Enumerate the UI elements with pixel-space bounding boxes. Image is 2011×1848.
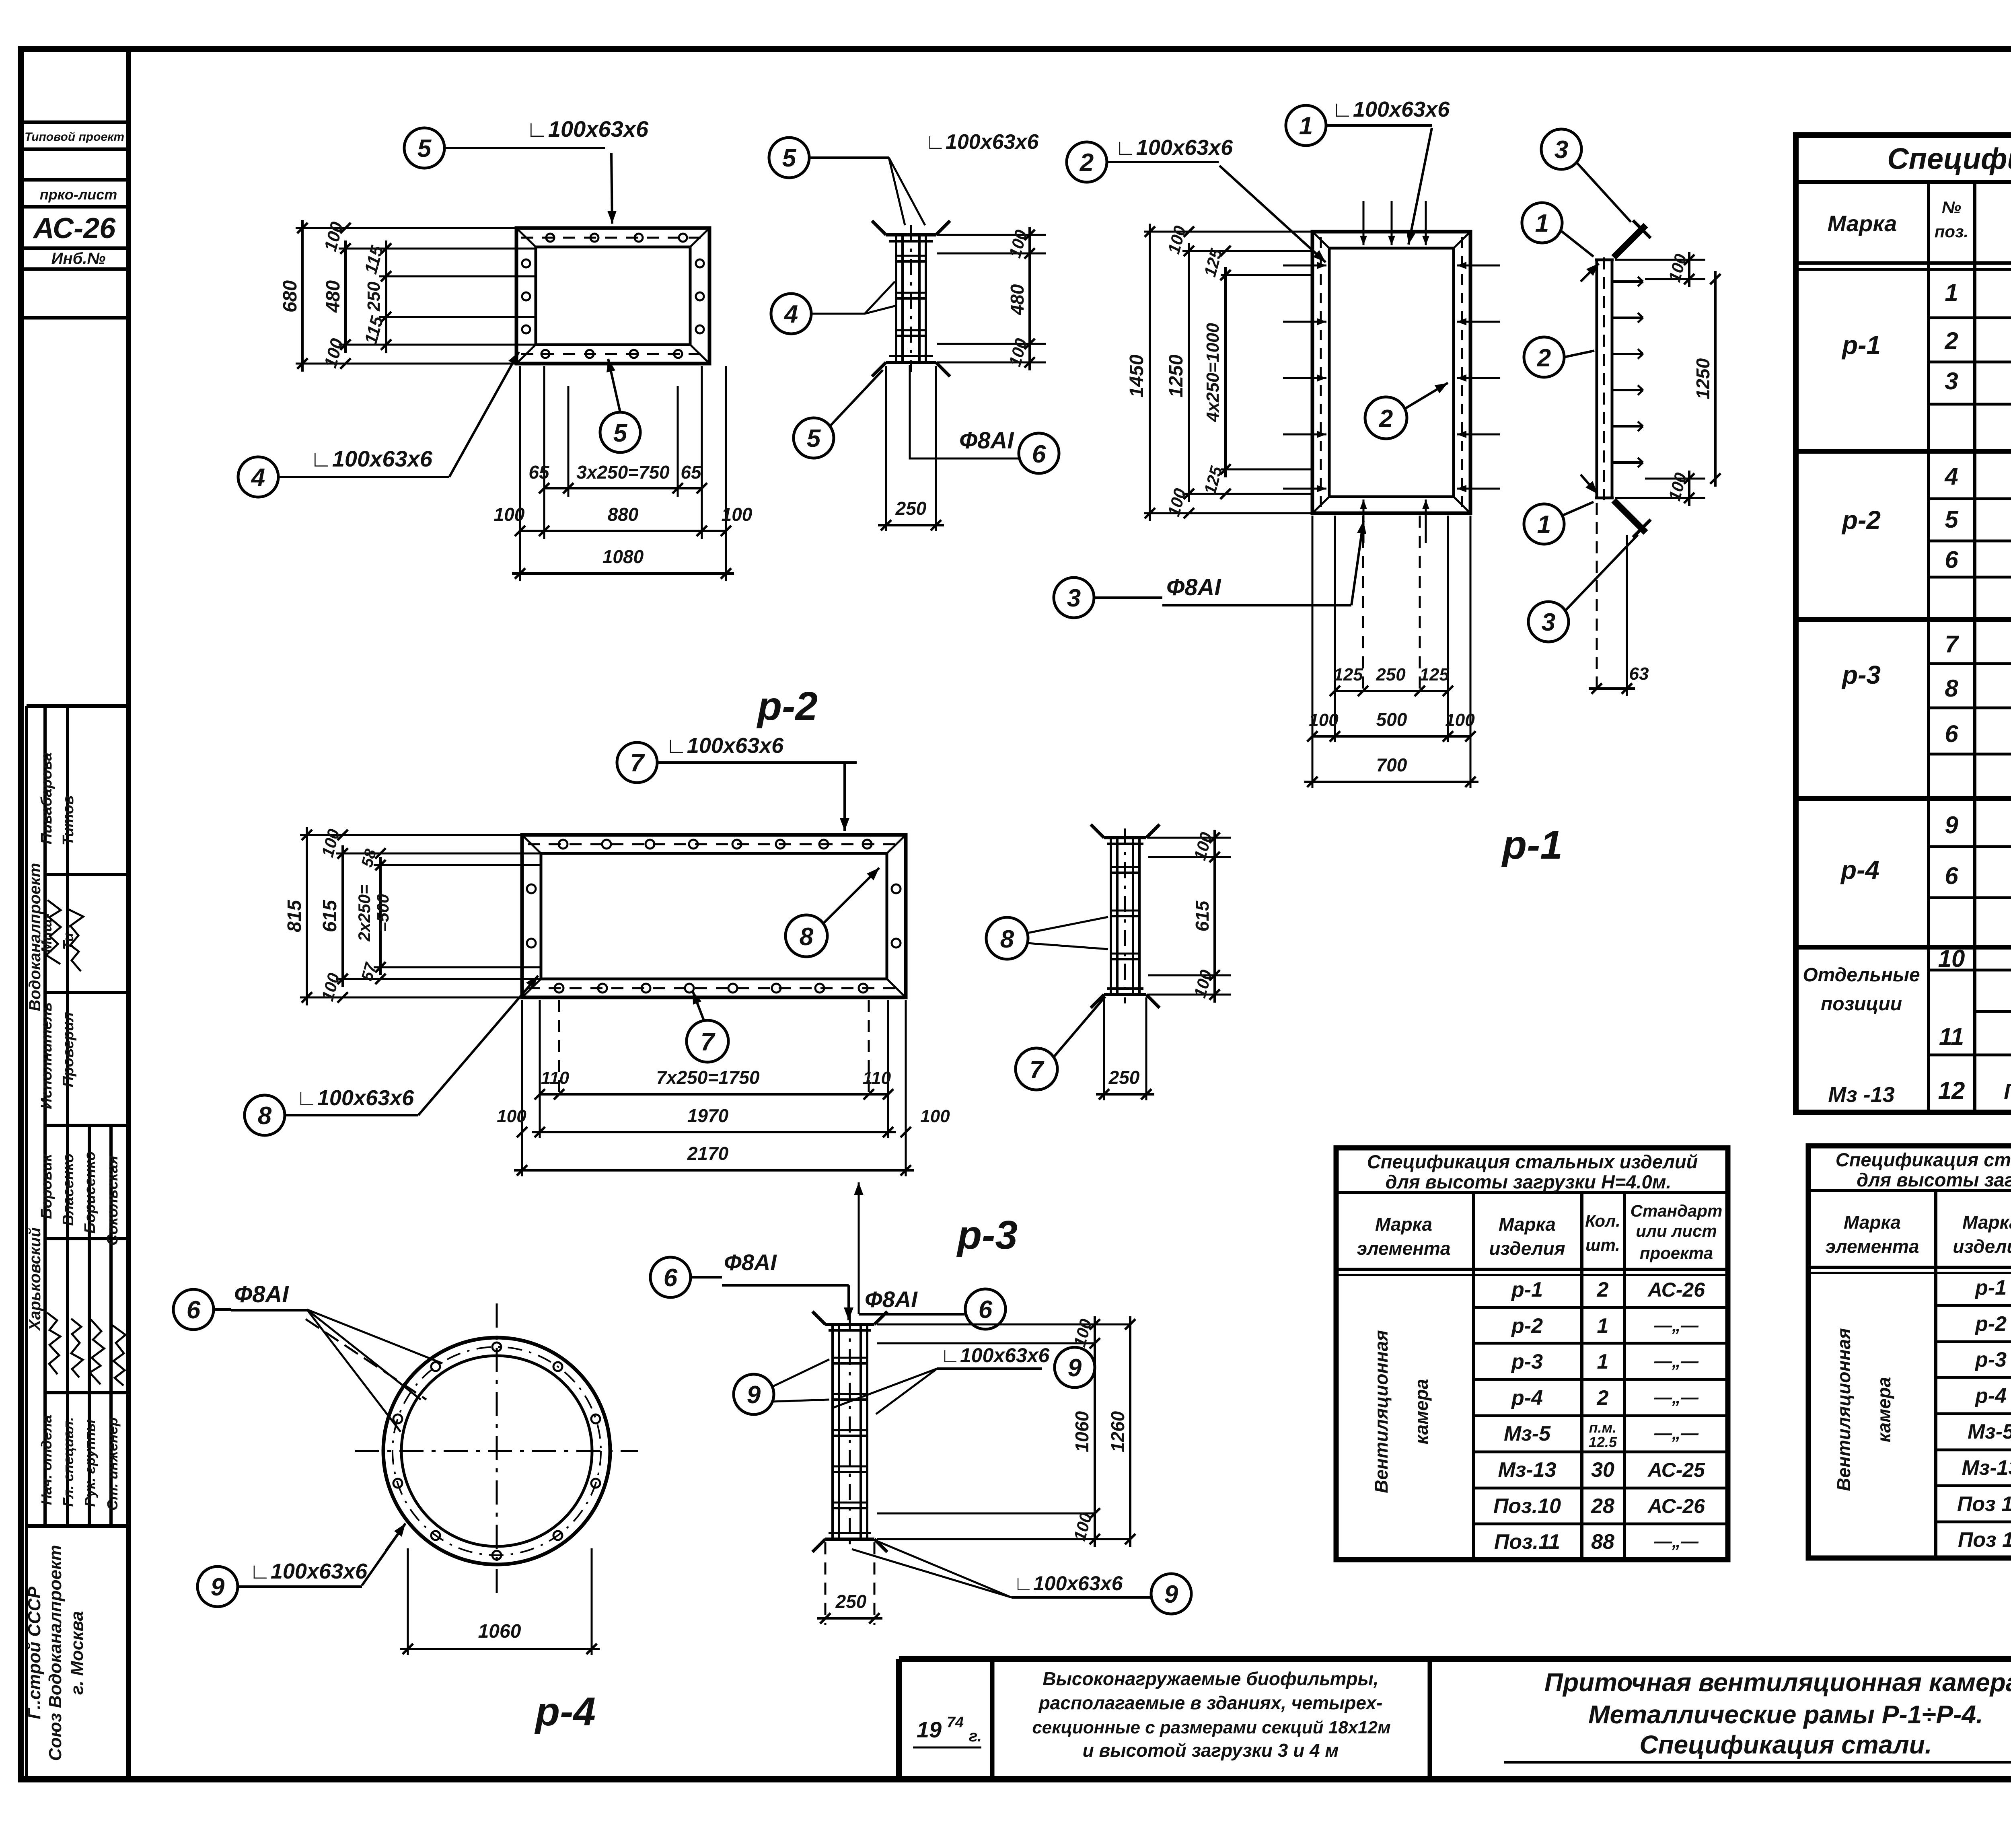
svg-text:7х250=1750: 7х250=1750: [656, 1067, 760, 1088]
svg-text:—„—: —„—: [1654, 1351, 1699, 1371]
svg-text:5: 5: [417, 135, 432, 162]
svg-text:110: 110: [541, 1068, 570, 1088]
svg-text:р-2: р-2: [1841, 506, 1881, 534]
svg-text:—„—: —„—: [1654, 1388, 1699, 1407]
svg-text:6: 6: [979, 1296, 993, 1324]
svg-text:=500: =500: [373, 894, 392, 932]
svg-text:∟100х63х6: ∟100х63х6: [925, 130, 1039, 154]
svg-text:8: 8: [1000, 925, 1014, 953]
svg-text:Ф8АІ: Ф8АІ: [234, 1281, 289, 1307]
svg-text:Поз 10: Поз 10: [1957, 1492, 2011, 1516]
svg-text:Мз -13: Мз -13: [1828, 1083, 1895, 1107]
svg-text:5: 5: [782, 144, 797, 172]
svg-text:Г..строй СССР: Г..строй СССР: [25, 1586, 44, 1719]
svg-text:р-3: р-3: [1974, 1348, 2007, 1371]
svg-text:1260: 1260: [1107, 1411, 1128, 1452]
svg-text:р-4: р-4: [1974, 1384, 2007, 1408]
svg-text:2х250=: 2х250=: [355, 884, 374, 941]
svg-text:100: 100: [920, 1106, 950, 1126]
svg-text:2: 2: [1080, 149, 1094, 177]
svg-text:Поз 11: Поз 11: [1958, 1528, 2011, 1552]
svg-text:1: 1: [1299, 112, 1313, 140]
svg-text:изделия: изделия: [1489, 1238, 1565, 1259]
svg-text:9: 9: [1164, 1581, 1178, 1608]
svg-text:8: 8: [1945, 675, 1958, 702]
svg-text:1060: 1060: [1071, 1411, 1092, 1452]
svg-text:5: 5: [1945, 506, 1959, 533]
svg-text:Рук. группы: Рук. группы: [82, 1419, 98, 1507]
svg-text:шт.: шт.: [1585, 1235, 1620, 1254]
svg-text:∟100х63х6: ∟100х63х6: [1332, 97, 1450, 121]
svg-text:65: 65: [681, 462, 702, 483]
svg-text:3: 3: [1945, 368, 1958, 395]
svg-text:1250: 1250: [1166, 354, 1187, 397]
svg-text:5: 5: [807, 425, 821, 452]
svg-text:7: 7: [1030, 1056, 1045, 1084]
svg-text:250: 250: [895, 498, 927, 519]
svg-text:Поз.10: Поз.10: [1493, 1494, 1561, 1518]
svg-text:Спецификация стали на одно: Спецификация стали на одно изделие.: [1887, 142, 2011, 175]
svg-text:6: 6: [1945, 546, 1958, 573]
svg-text:элемента: элемента: [1357, 1238, 1451, 1259]
svg-text:4: 4: [251, 464, 265, 491]
svg-text:3: 3: [1067, 584, 1081, 612]
svg-text:9: 9: [747, 1381, 761, 1409]
svg-text:Высоконагружаемые биофильтры,: Высоконагружаемые биофильтры,: [1043, 1668, 1378, 1689]
svg-text:г.: г.: [969, 1727, 982, 1745]
svg-text:10: 10: [1938, 945, 1965, 972]
svg-text:100: 100: [1309, 710, 1339, 730]
svg-text:р-1: р-1: [1511, 1278, 1543, 1301]
svg-text:30: 30: [1591, 1458, 1614, 1482]
svg-text:∟100х63х6: ∟100х63х6: [666, 734, 784, 758]
svg-text:74: 74: [947, 1714, 964, 1731]
svg-text:1970: 1970: [687, 1105, 729, 1126]
svg-text:1060: 1060: [478, 1621, 521, 1642]
svg-text:4: 4: [1944, 463, 1958, 490]
svg-text:6: 6: [1945, 862, 1958, 889]
svg-text:11: 11: [1939, 1023, 1964, 1050]
svg-text:Мз-13: Мз-13: [1962, 1456, 2011, 1480]
svg-text:р-1: р-1: [1501, 822, 1563, 867]
svg-text:Харьковский: Харьковский: [26, 1227, 44, 1331]
svg-text:р-4: р-4: [1511, 1386, 1543, 1410]
svg-text:7: 7: [1945, 631, 1959, 658]
svg-text:Приточная вентиляционная камер: Приточная вентиляционная камера.: [1544, 1668, 2011, 1697]
svg-text:6: 6: [1945, 720, 1958, 747]
svg-text:880: 880: [608, 504, 639, 525]
svg-text:Вентиляционная: Вентиляционная: [1371, 1330, 1392, 1493]
svg-text:или лист: или лист: [1636, 1221, 1717, 1240]
svg-text:500: 500: [1376, 709, 1407, 730]
svg-text:63: 63: [1629, 664, 1649, 684]
svg-text:р-2: р-2: [1511, 1314, 1543, 1338]
svg-text:п.м.: п.м.: [1589, 1419, 1617, 1436]
svg-text:Сокольская: Сокольская: [104, 1155, 121, 1246]
svg-text:р-4: р-4: [534, 1689, 596, 1734]
svg-text:28: 28: [1591, 1494, 1614, 1518]
svg-text:615: 615: [319, 900, 341, 932]
svg-text:Газовая трубка Д-1/2": Газовая трубка Д-1/2": [2004, 1079, 2011, 1104]
svg-text:Мз-5: Мз-5: [1504, 1422, 1551, 1445]
svg-text:9: 9: [1945, 812, 1958, 839]
svg-text:Ф8АІ: Ф8АІ: [959, 428, 1014, 454]
svg-text:1450: 1450: [1126, 354, 1147, 397]
svg-text:4х250=1000: 4х250=1000: [1203, 323, 1223, 422]
svg-text:12: 12: [1938, 1077, 1965, 1104]
svg-text:∟100х63х6: ∟100х63х6: [249, 1559, 368, 1583]
svg-text:Боровик: Боровик: [38, 1153, 55, 1219]
svg-text:Пивабарова: Пивабарова: [38, 752, 55, 845]
svg-text:8: 8: [258, 1102, 272, 1130]
svg-text:6: 6: [187, 1296, 201, 1324]
svg-text:Металлические рамы Р-1÷Р-4.: Металлические рамы Р-1÷Р-4.: [1588, 1700, 1983, 1729]
svg-text:р-2: р-2: [1974, 1312, 2007, 1336]
svg-text:250: 250: [1376, 665, 1406, 685]
svg-text:3: 3: [1555, 136, 1568, 164]
svg-text:2: 2: [1944, 327, 1958, 354]
svg-text:АС-26: АС-26: [1647, 1279, 1705, 1301]
svg-text:12.5: 12.5: [1589, 1434, 1617, 1450]
svg-text:8: 8: [800, 923, 814, 951]
svg-text:для высоты загрузки Н=30м.: для высоты загрузки Н=30м.: [1857, 1169, 2011, 1190]
svg-text:секционные с размерами секций: секционные с размерами секций 18х12м: [1032, 1718, 1390, 1737]
svg-text:Отдельные: Отдельные: [1803, 964, 1920, 986]
svg-text:∟100х63х6: ∟100х63х6: [296, 1086, 414, 1110]
svg-text:∟100х63х6: ∟100х63х6: [1014, 1572, 1123, 1595]
svg-text:Спецификация стальных изделий: Спецификация стальных изделий: [1367, 1151, 1698, 1172]
svg-text:2: 2: [1537, 344, 1551, 372]
svg-text:для высоты загрузки Н=4.0м.: для высоты загрузки Н=4.0м.: [1386, 1171, 1672, 1192]
svg-text:Марка: Марка: [1499, 1214, 1556, 1235]
svg-text:125: 125: [1333, 665, 1363, 685]
svg-text:АС-25: АС-25: [1647, 1459, 1705, 1481]
svg-text:Спецификация стали.: Спецификация стали.: [1639, 1730, 1932, 1759]
svg-text:Поз.11: Поз.11: [1494, 1530, 1560, 1554]
svg-text:Борисенко: Борисенко: [82, 1151, 99, 1233]
svg-text:Марка: Марка: [1962, 1212, 2011, 1233]
svg-text:р-3: р-3: [1841, 660, 1881, 689]
svg-text:700: 700: [1376, 754, 1407, 775]
svg-text:Вентиляционная: Вентиляционная: [1833, 1328, 1854, 1491]
svg-text:615: 615: [1192, 900, 1213, 931]
svg-text:Гл. специал.: Гл. специал.: [60, 1417, 76, 1507]
svg-text:1: 1: [1537, 511, 1551, 539]
svg-text:125: 125: [1419, 665, 1449, 685]
svg-text:250: 250: [835, 1591, 867, 1612]
svg-text:1080: 1080: [602, 546, 644, 567]
svg-text:100: 100: [497, 1106, 526, 1126]
svg-text:Ф8АІ: Ф8АІ: [1166, 574, 1221, 600]
svg-text:480: 480: [1007, 284, 1028, 315]
svg-text:9: 9: [211, 1573, 225, 1601]
svg-text:г. Москва: г. Москва: [67, 1611, 87, 1695]
svg-text:815: 815: [284, 900, 305, 932]
svg-text:∟100х63х6: ∟100х63х6: [1115, 136, 1233, 160]
svg-text:65: 65: [528, 462, 550, 483]
svg-text:камера: камера: [1873, 1377, 1894, 1443]
svg-text:прко-лист: прко-лист: [40, 186, 117, 203]
svg-text:р-3: р-3: [956, 1213, 1018, 1258]
svg-text:Ти~: Ти~: [60, 924, 76, 950]
svg-text:№: №: [1942, 198, 1961, 217]
svg-text:480: 480: [323, 280, 344, 313]
svg-text:—„—: —„—: [1654, 1316, 1699, 1335]
svg-text:100: 100: [494, 504, 525, 525]
svg-text:—„—: —„—: [1654, 1423, 1699, 1443]
svg-text:Спецификация стальных изделий: Спецификация стальных изделий: [1836, 1149, 2011, 1170]
svg-text:9: 9: [1068, 1354, 1082, 1382]
svg-text:250: 250: [1108, 1067, 1140, 1088]
svg-text:Марка: Марка: [1828, 211, 1897, 236]
svg-text:Мз-13: Мз-13: [1498, 1458, 1556, 1482]
svg-text:2: 2: [1597, 1278, 1609, 1301]
svg-text:1: 1: [1535, 210, 1549, 237]
svg-text:Типовой проект: Типовой проект: [25, 130, 124, 144]
svg-text:Нач. отдела: Нач. отдела: [38, 1415, 55, 1505]
svg-text:∟100х63х6: ∟100х63х6: [526, 116, 649, 142]
svg-text:1: 1: [1945, 279, 1958, 306]
svg-text:4: 4: [783, 300, 798, 328]
svg-text:р-1: р-1: [1974, 1276, 2007, 1299]
svg-text:7: 7: [701, 1028, 716, 1056]
svg-text:АС-26: АС-26: [1647, 1495, 1705, 1517]
svg-text:проекта: проекта: [1640, 1244, 1713, 1262]
svg-text:—„—: —„—: [1654, 1531, 1699, 1551]
svg-text:3х250=750: 3х250=750: [576, 462, 670, 483]
svg-text:Ст. инженер: Ст. инженер: [104, 1417, 121, 1511]
svg-text:Инб.№: Инб.№: [51, 250, 106, 267]
svg-text:Проверил: Проверил: [60, 1012, 77, 1087]
svg-text:поз.: поз.: [1935, 222, 1968, 241]
svg-text:Союз Водоканалпроект: Союз Водоканалпроект: [45, 1545, 65, 1761]
svg-text:2: 2: [1379, 405, 1393, 433]
svg-text:250: 250: [364, 282, 384, 312]
svg-text:19: 19: [917, 1717, 942, 1742]
svg-text:1250: 1250: [1692, 358, 1713, 399]
svg-text:6: 6: [1032, 440, 1046, 468]
svg-text:Титов: Титов: [60, 796, 77, 845]
svg-text:камера: камера: [1411, 1379, 1432, 1445]
svg-text:Исполнитель: Исполнитель: [38, 1002, 55, 1109]
svg-text:110: 110: [863, 1068, 891, 1088]
svg-text:Ф8АІ: Ф8АІ: [724, 1250, 777, 1275]
svg-text:Ф8АІ: Ф8АІ: [865, 1287, 918, 1312]
svg-text:изделия: изделия: [1953, 1236, 2011, 1257]
svg-text:∟100х63х6: ∟100х63х6: [940, 1344, 1050, 1367]
svg-text:88: 88: [1591, 1530, 1614, 1554]
svg-text:Кол.: Кол.: [1585, 1211, 1620, 1230]
svg-text:680: 680: [280, 280, 301, 312]
svg-text:располагаемые в зданиях, четыр: располагаемые в зданиях, четырех-: [1038, 1692, 1383, 1713]
svg-text:5: 5: [613, 419, 628, 447]
svg-text:Марка: Марка: [1844, 1212, 1901, 1233]
svg-text:Мз-5: Мз-5: [1968, 1420, 2011, 1443]
svg-text:7: 7: [630, 749, 645, 777]
svg-text:100: 100: [722, 504, 753, 525]
svg-text:и высотой загрузки 3 и 4 м: и высотой загрузки 3 и 4 м: [1083, 1740, 1339, 1761]
svg-text:3: 3: [1542, 608, 1555, 636]
svg-text:1: 1: [1597, 1350, 1609, 1373]
svg-text:элемента: элемента: [1826, 1236, 1919, 1257]
svg-text:2: 2: [1597, 1386, 1609, 1410]
svg-text:АС-26: АС-26: [33, 212, 116, 245]
svg-text:р-1: р-1: [1841, 331, 1881, 360]
svg-text:позиции: позиции: [1821, 993, 1902, 1015]
svg-text:100: 100: [1445, 710, 1475, 730]
svg-text:Власенко: Власенко: [60, 1153, 77, 1226]
svg-text:Стандарт: Стандарт: [1631, 1201, 1723, 1220]
svg-text:∟100х63х6: ∟100х63х6: [310, 446, 433, 471]
svg-text:р-2: р-2: [756, 684, 818, 729]
svg-text:р-3: р-3: [1511, 1350, 1543, 1373]
svg-text:2170: 2170: [687, 1143, 729, 1164]
svg-text:Марка: Марка: [1375, 1214, 1432, 1235]
svg-text:1: 1: [1597, 1314, 1609, 1338]
svg-text:6: 6: [664, 1264, 678, 1292]
svg-text:р-4: р-4: [1840, 855, 1879, 884]
